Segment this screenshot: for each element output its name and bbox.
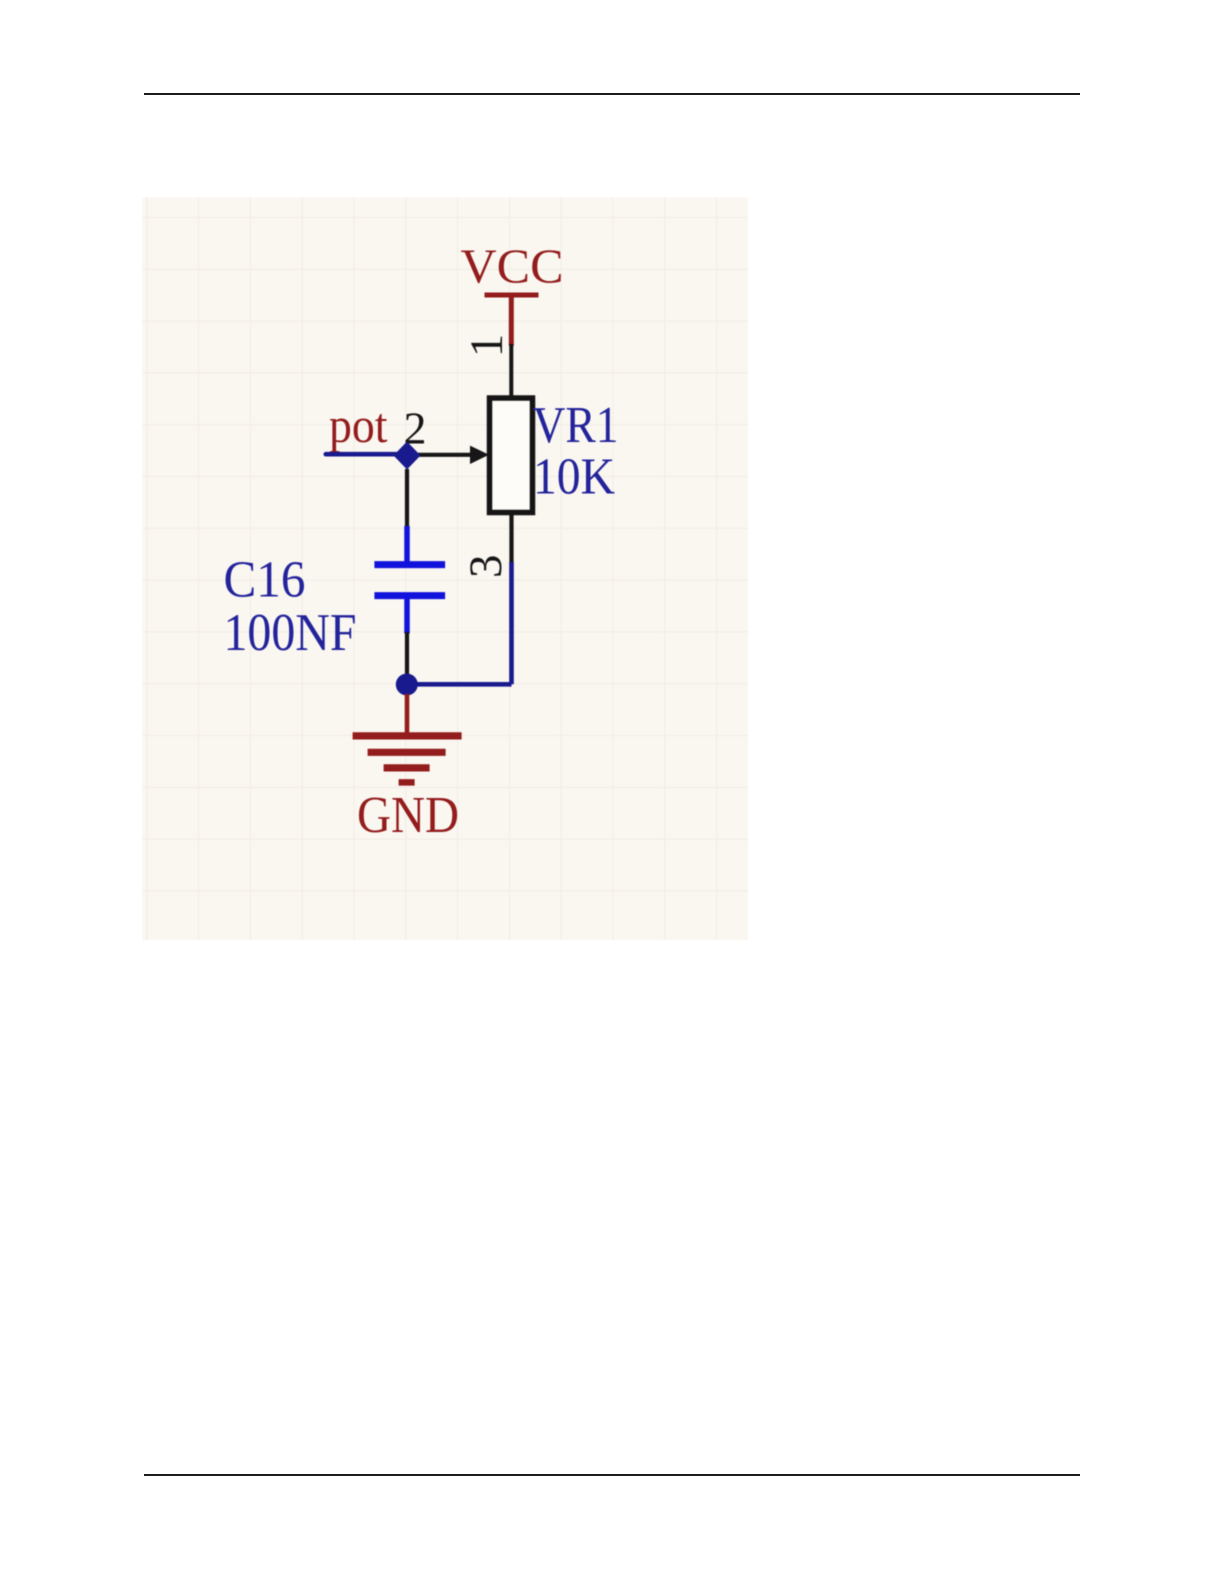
schematic background [143,198,749,941]
svg-text:100NF: 100NF [224,604,357,662]
wire junction to capacitor (black) [405,469,409,529]
wire capacitor to bottom junction (black) [405,632,409,684]
bottom horizontal rule [144,1474,1080,1476]
svg-text:C16: C16 [224,552,306,609]
junction node pot (diamond dot) [394,442,421,470]
ground symbol [353,736,462,783]
capacitor C16 bottom stem [404,599,410,634]
svg-text:10K: 10K [533,449,615,506]
capacitor C16 top stem [404,526,410,562]
wire bottom horizontal (navy) [407,682,512,687]
capacitor C16 bottom plate [374,592,445,599]
wire to ground (dark red) [405,694,410,736]
wire pot net (navy, left of junction) [326,452,407,457]
svg-text:VR1: VR1 [533,397,619,454]
grid [143,198,749,941]
pin 1 wire [509,344,513,400]
svg-text:1: 1 [461,334,513,358]
svg-text:3: 3 [460,554,512,578]
power symbol VCC bar [485,293,539,298]
svg-text:VCC: VCC [461,239,564,294]
wire right vertical (navy) [509,562,514,684]
svg-text:pot: pot [329,397,388,453]
power symbol VCC stem [509,295,514,346]
pin 2 wiper arrowhead [470,446,489,464]
capacitor C16 top plate [374,561,445,568]
pin 2 wiper wire [407,453,473,457]
potentiometer VR1 body [490,398,533,513]
svg-text:GND: GND [357,787,459,844]
top horizontal rule [144,93,1080,95]
junction node bottom (round dot) [396,674,418,696]
pin 3 wire (black) [509,510,513,563]
